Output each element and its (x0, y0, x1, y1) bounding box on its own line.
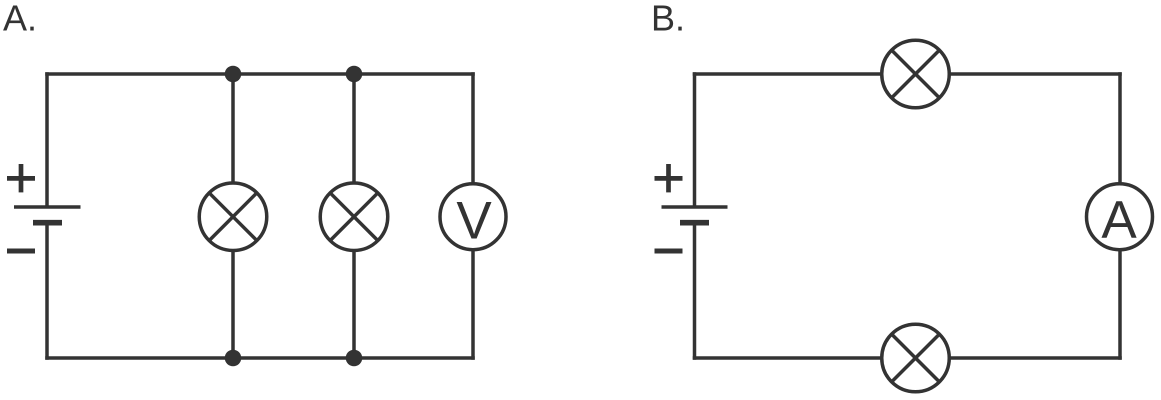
wire: circuit B bottom bus (through lamp L4) (693, 356, 1122, 360)
battery BT1 minus sign (7, 249, 35, 254)
wire: circuit B left side upper (to battery + plate) (693, 72, 697, 207)
battery BT2 (circuit B) (662, 207, 728, 223)
junction dot bottom-right (node 4) (346, 350, 363, 367)
wire: circuit A left side upper (to battery + plate) (45, 72, 49, 207)
wire: circuit A left side lower (from battery - plate) (45, 226, 49, 360)
lamp L4 (882, 324, 950, 392)
ammeter A1 (1087, 184, 1153, 250)
wire: circuit B left side lower (from battery - plate) (693, 226, 697, 360)
wire: branch 1 vertical (through lamp L1) (231, 74, 235, 358)
junction dot bottom-left (node 3) (225, 350, 242, 367)
lamp L3 (882, 40, 950, 108)
junction dot top-left (node 1) (225, 66, 242, 83)
wire: circuit A right side (through voltmeter) (471, 72, 475, 360)
svg-text:A: A (1101, 191, 1137, 250)
lamp L2 (320, 183, 388, 251)
battery BT2 minus sign (655, 249, 683, 254)
wire: branch 2 vertical (through lamp L2) (352, 74, 356, 358)
wire: circuit A bottom bus (45, 356, 475, 360)
battery BT1 (circuit A) (14, 207, 81, 223)
battery BT1 plus sign (7, 164, 35, 192)
wire: circuit B right side (through ammeter) (1118, 72, 1122, 360)
voltmeter V1 (440, 184, 506, 251)
svg-text:B.: B. (651, 0, 685, 39)
label A (3, 0, 37, 39)
lamp L1 (199, 183, 267, 251)
battery BT2 plus sign (655, 164, 683, 192)
svg-text:A.: A. (3, 0, 37, 39)
wire: circuit B top bus (through lamp L3) (693, 72, 1122, 76)
wire: circuit A top bus (45, 72, 475, 76)
svg-text:V: V (456, 192, 492, 251)
label B (651, 0, 685, 39)
junction dot top-right (node 2) (346, 66, 363, 83)
